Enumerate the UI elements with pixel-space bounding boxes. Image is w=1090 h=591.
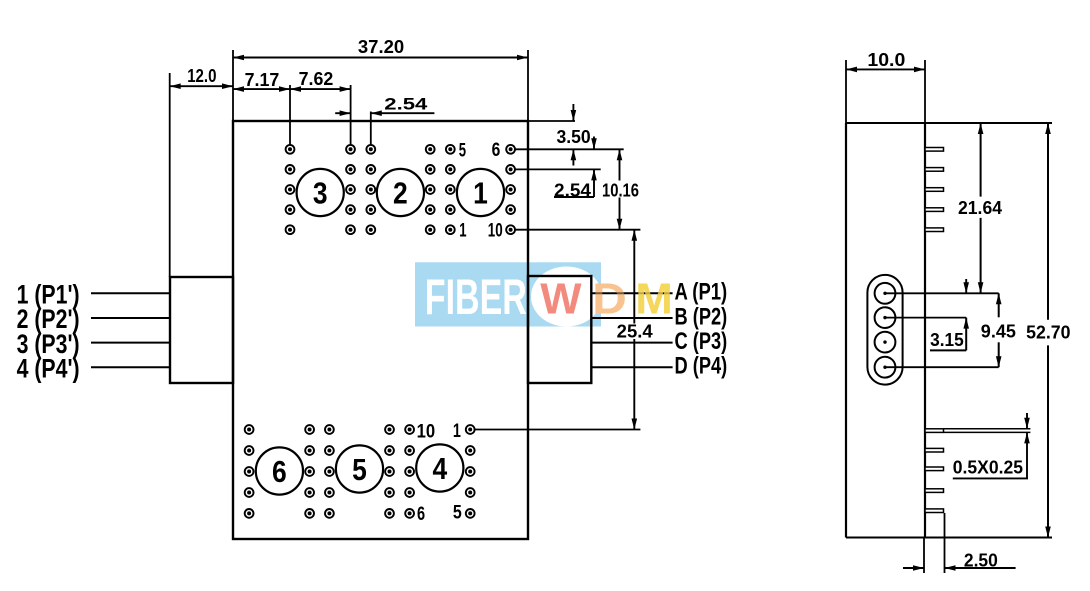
- svg-text:52.70: 52.70: [1026, 322, 1070, 342]
- svg-text:10: 10: [417, 422, 436, 443]
- svg-text:2.54: 2.54: [554, 180, 591, 200]
- svg-text:10.16: 10.16: [602, 180, 639, 200]
- svg-text:12.0: 12.0: [187, 66, 216, 86]
- svg-text:6: 6: [417, 504, 425, 525]
- svg-text:5: 5: [352, 452, 367, 487]
- svg-text:3.15: 3.15: [930, 330, 964, 350]
- svg-text:1: 1: [453, 421, 461, 442]
- svg-text:W: W: [540, 275, 582, 324]
- svg-text:C (P3): C (P3): [675, 328, 728, 355]
- svg-text:0.5X0.25: 0.5X0.25: [953, 457, 1023, 477]
- svg-text:6: 6: [272, 454, 287, 489]
- svg-text:21.64: 21.64: [958, 198, 1002, 218]
- svg-text:A (P1): A (P1): [675, 279, 728, 306]
- svg-text:5: 5: [459, 140, 467, 161]
- svg-text:10.0: 10.0: [867, 50, 905, 70]
- svg-text:4 (P4'): 4 (P4'): [17, 354, 80, 384]
- svg-text:2: 2: [393, 176, 408, 211]
- svg-text:7.17: 7.17: [245, 70, 280, 90]
- svg-text:B (P2): B (P2): [675, 303, 728, 330]
- svg-text:2.54: 2.54: [384, 94, 428, 113]
- svg-text:6: 6: [492, 140, 501, 161]
- svg-text:3: 3: [313, 176, 328, 211]
- svg-text:3.50: 3.50: [557, 127, 591, 147]
- svg-text:1: 1: [459, 221, 467, 242]
- svg-text:37.20: 37.20: [358, 37, 404, 57]
- svg-text:9.45: 9.45: [981, 322, 1016, 342]
- svg-text:D: D: [592, 275, 627, 324]
- svg-text:M: M: [635, 275, 672, 324]
- svg-text:7.62: 7.62: [299, 69, 334, 89]
- svg-text:25.4: 25.4: [617, 322, 653, 342]
- svg-text:FIBER: FIBER: [425, 269, 527, 325]
- svg-text:5: 5: [453, 502, 462, 523]
- svg-text:D (P4): D (P4): [675, 353, 728, 380]
- svg-text:2.50: 2.50: [964, 551, 998, 571]
- svg-text:4: 4: [432, 451, 447, 486]
- svg-text:1: 1: [473, 176, 488, 211]
- svg-text:10: 10: [488, 221, 503, 242]
